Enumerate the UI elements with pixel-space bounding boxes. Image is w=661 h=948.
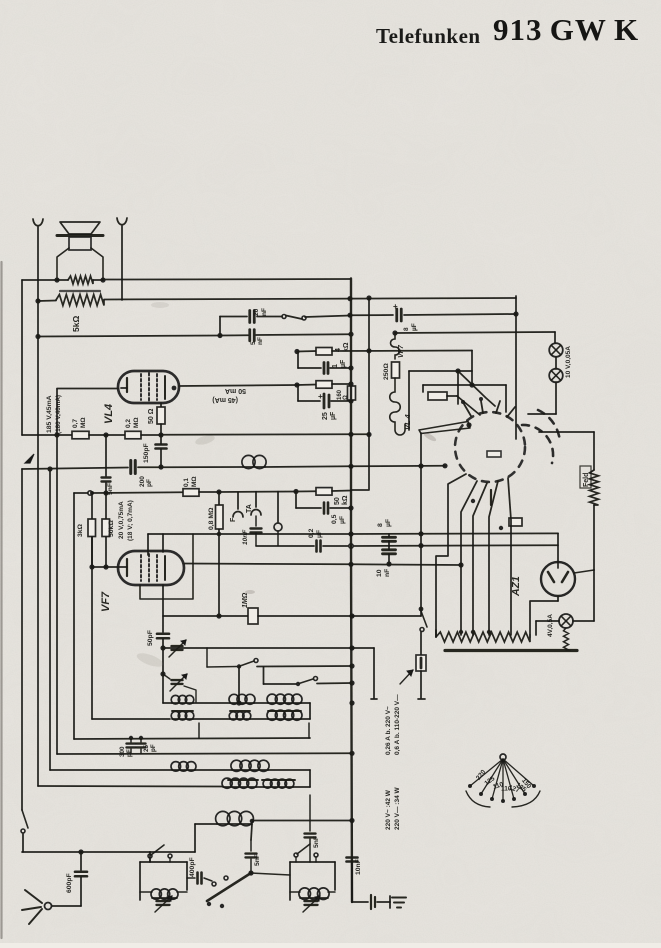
svg-text:50kΩ: 50kΩ bbox=[108, 520, 115, 537]
svg-text:(180 V,40mA): (180 V,40mA) bbox=[55, 395, 62, 434]
svg-text:VF7: VF7 bbox=[398, 344, 405, 358]
svg-text:50: 50 bbox=[334, 497, 341, 505]
svg-text:600pF: 600pF bbox=[66, 873, 73, 893]
svg-text:µF: µF bbox=[330, 411, 337, 420]
svg-text:0,6 A b. 110-220 V—: 0,6 A b. 110-220 V— bbox=[394, 694, 401, 755]
svg-text:50pF: 50pF bbox=[147, 630, 154, 646]
svg-text:MΩ: MΩ bbox=[191, 476, 198, 487]
svg-text:200: 200 bbox=[139, 476, 146, 487]
svg-text:TA: TA bbox=[246, 504, 253, 513]
svg-text:220 V— :34 W: 220 V— :34 W bbox=[394, 787, 401, 830]
svg-text:Feld: Feld bbox=[583, 473, 590, 487]
svg-text:F: F bbox=[230, 517, 237, 522]
svg-text:10nF: 10nF bbox=[355, 859, 362, 875]
svg-text:300: 300 bbox=[119, 746, 126, 757]
svg-text:pF: pF bbox=[150, 744, 157, 752]
svg-text:0,26 A b. 220 V~: 0,26 A b. 220 V~ bbox=[385, 706, 392, 755]
svg-text:kΩ: kΩ bbox=[342, 495, 349, 505]
svg-text:µF: µF bbox=[339, 516, 346, 524]
svg-text:nF: nF bbox=[257, 337, 264, 345]
svg-text:+: + bbox=[393, 302, 398, 311]
svg-text:5: 5 bbox=[250, 341, 257, 345]
svg-text:VL4: VL4 bbox=[103, 404, 115, 424]
svg-text:10: 10 bbox=[376, 569, 383, 577]
svg-text:pF: pF bbox=[146, 479, 153, 487]
svg-text:3kΩ: 3kΩ bbox=[77, 523, 84, 537]
svg-text:Ω: Ω bbox=[343, 395, 349, 400]
svg-text:5nF: 5nF bbox=[313, 836, 320, 848]
svg-text:25: 25 bbox=[143, 744, 150, 752]
svg-text:4V,0,5A: 4V,0,5A bbox=[547, 614, 554, 637]
svg-text:µF: µF bbox=[385, 519, 392, 527]
svg-text:50 Ω: 50 Ω bbox=[148, 408, 155, 424]
svg-text:0,1: 0,1 bbox=[183, 478, 190, 487]
svg-text:VF7: VF7 bbox=[100, 591, 112, 612]
svg-text:8: 8 bbox=[403, 327, 410, 331]
svg-text:185 V,45mA: 185 V,45mA bbox=[46, 395, 53, 433]
svg-text:µF: µF bbox=[340, 359, 347, 368]
svg-text:(45 mA): (45 mA) bbox=[212, 396, 238, 403]
svg-text:+: + bbox=[318, 392, 323, 401]
svg-text:0,8 MΩ: 0,8 MΩ bbox=[208, 507, 215, 530]
svg-text:kΩ: kΩ bbox=[343, 342, 350, 352]
svg-text:220 V~ :42 W: 220 V~ :42 W bbox=[385, 789, 392, 830]
svg-text:1MΩ: 1MΩ bbox=[242, 592, 249, 608]
svg-text:MΩ: MΩ bbox=[80, 417, 87, 428]
svg-text:AZ1: AZ1 bbox=[510, 576, 522, 597]
svg-text:10nF: 10nF bbox=[242, 529, 249, 545]
svg-text:5nF: 5nF bbox=[254, 854, 261, 866]
svg-text:150pF: 150pF bbox=[143, 443, 150, 463]
svg-text:0,7: 0,7 bbox=[72, 419, 79, 428]
svg-text:20 V,0,75mA: 20 V,0,75mA bbox=[118, 501, 125, 539]
svg-text:0,2: 0,2 bbox=[125, 419, 132, 428]
svg-text:µF: µF bbox=[411, 323, 418, 331]
svg-text:nF: nF bbox=[261, 308, 268, 316]
svg-text:4: 4 bbox=[335, 348, 342, 352]
svg-text:25: 25 bbox=[322, 412, 329, 420]
svg-text:250Ω: 250Ω bbox=[383, 363, 390, 380]
svg-text:(18 V; 0,7mA): (18 V; 0,7mA) bbox=[127, 500, 134, 541]
svg-text:400pF: 400pF bbox=[189, 857, 196, 877]
svg-text:0,5: 0,5 bbox=[331, 514, 338, 524]
svg-text:8: 8 bbox=[377, 523, 384, 527]
svg-text:MΩ: MΩ bbox=[133, 417, 140, 428]
svg-text:10 V,0,05A: 10 V,0,05A bbox=[565, 346, 572, 378]
svg-text:VL 4: VL 4 bbox=[403, 413, 412, 430]
svg-text:20: 20 bbox=[253, 308, 260, 316]
svg-text:50 mA: 50 mA bbox=[225, 387, 246, 394]
svg-text:pF: pF bbox=[126, 749, 133, 757]
svg-text:nF: nF bbox=[384, 569, 391, 577]
svg-text:5kΩ: 5kΩ bbox=[71, 316, 81, 332]
svg-text:1: 1 bbox=[332, 364, 339, 368]
